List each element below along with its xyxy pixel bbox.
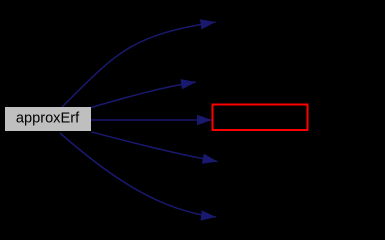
- svg-text:approxErf: approxErf: [16, 111, 80, 127]
